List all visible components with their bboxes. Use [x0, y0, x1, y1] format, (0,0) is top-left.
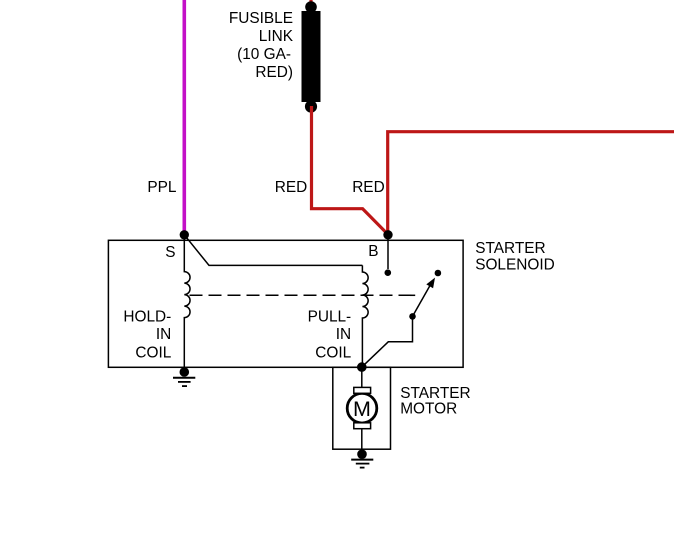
svg-text:M: M — [353, 397, 371, 421]
node at starter motor ground — [357, 449, 367, 459]
svg-text:HOLD-: HOLD- — [123, 308, 171, 325]
switch arm with arrowhead — [413, 278, 436, 317]
label STARTER MOTOR — [400, 385, 470, 417]
node S — [180, 230, 189, 239]
ground (hold-in coil) — [173, 378, 195, 386]
svg-text:MOTOR: MOTOR — [400, 401, 457, 418]
starter motor box — [333, 367, 391, 449]
wire motor to ground — [361, 427, 363, 453]
node B — [383, 230, 392, 239]
switch fixed contact node (battery side) — [385, 269, 392, 276]
wire PPL (purple feed to terminal S) — [183, 0, 187, 234]
svg-text:(10 GA-: (10 GA- — [237, 46, 291, 63]
ground (starter motor) — [351, 460, 373, 468]
junction node (pull-in coil / switch / starter motor) — [357, 362, 367, 372]
svg-text:FUSIBLE: FUSIBLE — [229, 10, 293, 27]
node at hold-in coil ground — [180, 367, 190, 377]
svg-text:COIL: COIL — [135, 344, 171, 361]
svg-text:PULL-: PULL- — [308, 308, 352, 325]
wire from B down to switch fixed contact — [387, 237, 389, 269]
svg-text:SOLENOID: SOLENOID — [475, 257, 555, 274]
wire junction node to motor — [361, 367, 363, 389]
label FUSIBLE LINK (10 GA- RED) — [229, 10, 294, 81]
wire RED stub above fusible link — [309, 0, 312, 4]
mechanical linkage (dashed line between coils and switch) — [190, 294, 416, 296]
svg-text:RED: RED — [352, 179, 385, 196]
svg-text:COIL: COIL — [315, 344, 351, 361]
motor M1 (circle with M and brushes) — [347, 387, 377, 428]
fusible link F1 (10 GA RED) — [302, 1, 321, 112]
switch pivot node — [409, 313, 416, 320]
label HOLD- IN COIL — [123, 308, 171, 361]
label STARTER SOLENOID — [475, 240, 555, 274]
svg-text:IN: IN — [156, 326, 171, 343]
svg-text:PPL: PPL — [147, 179, 177, 196]
svg-text:RED: RED — [275, 179, 308, 196]
svg-text:LINK: LINK — [259, 28, 294, 45]
svg-text:IN: IN — [336, 326, 351, 343]
svg-text:STARTER: STARTER — [475, 240, 545, 257]
wire RED from battery feed (right edge) to terminal B — [388, 132, 674, 235]
wire RED from fusible link to terminal B — [312, 106, 389, 235]
switch output contact node (motor side) — [435, 270, 442, 277]
wire from switch pivot to junction node — [362, 316, 413, 367]
svg-text:S: S — [165, 244, 175, 261]
wire from S to pull-in coil (diagonal + horizontal) — [184, 235, 362, 266]
pull-in coil L2 — [362, 265, 368, 367]
starter solenoid box — [108, 240, 463, 367]
hold-in coil L1 — [184, 237, 190, 371]
label PULL- IN COIL — [308, 308, 352, 361]
svg-text:B: B — [368, 243, 378, 260]
svg-text:RED): RED) — [255, 64, 293, 81]
